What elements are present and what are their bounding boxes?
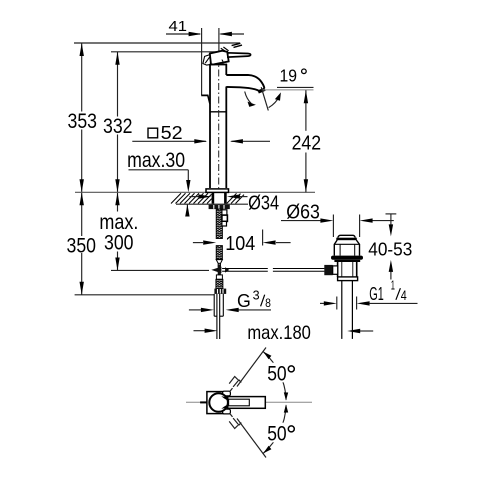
svg-text:41: 41 xyxy=(169,19,188,35)
svg-text:40-53: 40-53 xyxy=(368,238,412,259)
svg-text:19: 19 xyxy=(280,65,298,85)
wire: 242 top reference line xyxy=(262,89,313,91)
drain flange underside line xyxy=(334,243,359,245)
svg-text:3: 3 xyxy=(253,287,260,302)
wire: extension line right of 41 dim xyxy=(218,28,220,51)
handle root notch xyxy=(221,47,229,52)
spray angle arc right xyxy=(269,96,280,107)
drain body xyxy=(338,262,357,277)
swivel dim upper arc xyxy=(263,352,286,400)
dim max.30 xyxy=(127,148,190,217)
dim G1 1/4 xyxy=(320,278,418,310)
svg-text:104: 104 xyxy=(225,232,255,255)
swivel diagonal lower xyxy=(229,413,266,458)
svg-text:242: 242 xyxy=(292,132,322,154)
spout-body step xyxy=(201,95,211,104)
top view corner tab upper xyxy=(223,391,231,396)
spray angle arc left xyxy=(245,92,252,104)
dim 50deg lower xyxy=(265,423,296,443)
svg-text:Ø63: Ø63 xyxy=(286,200,320,223)
drain rod port xyxy=(324,265,332,275)
svg-text:1: 1 xyxy=(391,278,395,293)
handle knob xyxy=(210,51,229,65)
svg-text:50: 50 xyxy=(267,361,287,385)
dim 104 xyxy=(193,230,291,255)
mounting hole edge left xyxy=(212,193,215,204)
handle inner detail xyxy=(222,60,223,64)
swivel dim lower arrowheads xyxy=(263,446,271,454)
pop-up rod vertical stub xyxy=(218,263,220,266)
handle base line xyxy=(210,64,227,66)
locknut under deck xyxy=(209,205,230,209)
handle ghost dashes (raised position) xyxy=(232,43,242,47)
top view lever outer xyxy=(228,397,266,409)
top view black wedge lower xyxy=(221,405,227,409)
dim max.300 xyxy=(99,192,138,270)
wire: max.300 reference / rod line xyxy=(111,269,209,271)
wire: top view centerline xyxy=(186,401,312,403)
dim G3/8 xyxy=(189,287,271,312)
svg-text:350: 350 xyxy=(67,233,97,257)
threaded shank upper xyxy=(216,209,222,238)
dim 40-53 xyxy=(368,214,412,280)
svg-text:52: 52 xyxy=(161,122,183,143)
wire: reference line at raised-lever level xyxy=(74,42,240,44)
svg-text:max.30: max.30 xyxy=(127,148,185,172)
svg-text:Ø34: Ø34 xyxy=(248,193,279,215)
faucet centerline xyxy=(218,56,220,190)
svg-text:G1: G1 xyxy=(369,283,384,304)
threaded connector xyxy=(216,279,223,288)
counter deck top line xyxy=(75,191,315,193)
supply hoses xyxy=(214,294,223,339)
spout xyxy=(226,75,264,91)
svg-text:max.180: max.180 xyxy=(247,322,311,344)
svg-text:G: G xyxy=(237,290,251,311)
dim 50deg upper xyxy=(265,363,296,383)
dim 41 xyxy=(166,19,244,36)
shank side fitting xyxy=(222,210,227,215)
shank taper xyxy=(216,260,222,264)
svg-text:8: 8 xyxy=(265,297,271,310)
threaded shank lower xyxy=(216,246,222,260)
counter deck bottom line xyxy=(176,203,248,205)
swivel diagonal upper xyxy=(229,348,266,393)
svg-text:300: 300 xyxy=(104,230,134,254)
top view lever inner xyxy=(229,399,250,406)
svg-text:332: 332 xyxy=(103,114,133,138)
faucet column right edge xyxy=(225,64,227,75)
faucet column joint line xyxy=(210,111,226,113)
drain plug top bar xyxy=(336,238,357,241)
dim 242 xyxy=(292,90,322,192)
dim 353 xyxy=(68,43,98,192)
dim 19deg xyxy=(277,65,314,87)
spout aerator tip xyxy=(258,89,265,92)
dim max.180 xyxy=(194,322,374,344)
top view cartridge circle xyxy=(209,393,228,412)
drain tailpipe xyxy=(342,281,353,339)
wire: extension line left of 41 dim xyxy=(201,28,203,95)
drain plug dome xyxy=(338,235,355,237)
faucet column left edge xyxy=(209,64,211,188)
svg-text:50: 50 xyxy=(267,421,287,445)
swivel dim lower arc xyxy=(263,405,286,453)
top view spout stub xyxy=(200,401,207,403)
pop-up cross fitting xyxy=(211,264,229,275)
wire: reference line at lever level xyxy=(111,51,228,53)
svg-text:353: 353 xyxy=(68,109,98,133)
drain flange inner lines xyxy=(339,244,341,255)
dim 350 xyxy=(67,192,97,294)
pop-up horizontal rod xyxy=(222,269,324,272)
faucet base plate xyxy=(206,189,229,193)
handle lever bar xyxy=(228,53,251,57)
dim diameter34 xyxy=(189,193,279,215)
drain flange flare xyxy=(334,240,359,256)
fitting below cross xyxy=(216,275,222,279)
drain nut xyxy=(338,277,358,281)
dim square52 xyxy=(132,122,270,144)
drain seal ring xyxy=(331,256,363,260)
dim diameter63 xyxy=(281,200,394,237)
supply nut xyxy=(214,289,226,294)
dim 332 xyxy=(103,52,133,193)
swivel dim upper arrowheads xyxy=(263,352,271,360)
spray direction diagonal xyxy=(261,87,268,110)
top view corner tab lower xyxy=(223,409,231,414)
top view black wedge upper xyxy=(221,396,227,400)
svg-text:4: 4 xyxy=(401,288,407,303)
mounting hole edge right xyxy=(224,193,227,204)
handle left flap xyxy=(203,55,211,66)
top view square body xyxy=(207,392,230,414)
counter deck hatching xyxy=(171,193,244,203)
wire: 350 reference line xyxy=(75,294,214,296)
